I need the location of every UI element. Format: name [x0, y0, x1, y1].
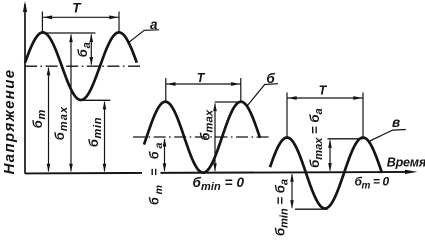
svg-text:б: б	[266, 71, 275, 86]
svg-text:Время: Время	[387, 156, 425, 170]
svg-text:в: в	[392, 115, 400, 130]
svg-text:Напряжение: Напряжение	[1, 69, 18, 175]
svg-text:а: а	[150, 17, 158, 32]
